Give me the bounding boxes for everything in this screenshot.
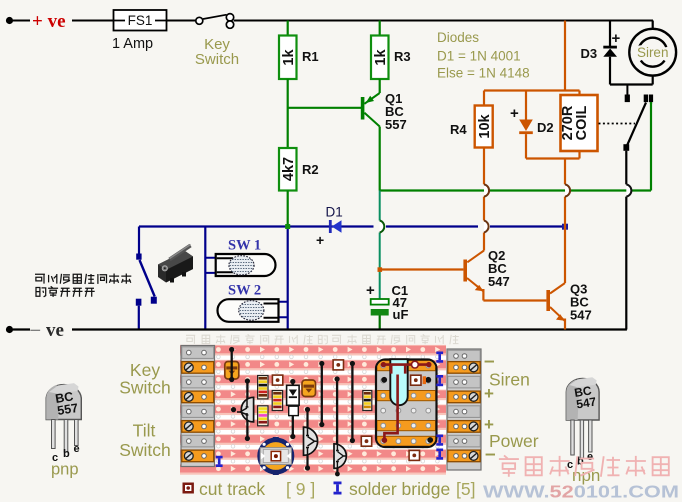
wire link link 3 [319,361,324,427]
transistor Q3 BC547 [546,283,565,330]
wire orange feed from +ve rail [564,21,566,91]
wire R3 top tap [379,21,381,36]
transistor T1 symbol [231,399,249,421]
svg-text:[5]: [5] [456,479,475,499]
wire Q2 emitter to Q3 base [483,299,546,301]
wire R4 to Q2 collector [483,148,485,251]
svg-text:Tilt: Tilt [133,421,156,441]
svg-text:pnp: pnp [51,461,79,479]
legend solder bridge text [349,479,475,499]
cut track mark [361,436,371,446]
transistor T2 on PCB (flat left) [304,407,318,471]
relay contact lever [623,103,646,151]
watermark chinese pink [499,455,669,476]
label siren terminals [484,351,530,403]
svg-text:1k: 1k [373,49,389,66]
label C1 47uF [392,283,409,322]
tilt switch SW1 [205,254,275,276]
svg-text:WWW.520101.COM: WWW.520101.COM [483,482,679,502]
transistor Q2 BC547 [380,251,484,301]
node D1 to Q3 collector junction dot [562,224,568,230]
diode D3 [603,21,617,85]
resistor on PCB RA [258,376,268,399]
label Q2 BC547 [488,248,510,289]
cut track mark inside relay [411,375,426,385]
label D1 [326,205,343,220]
svg-text:547: 547 [570,308,592,323]
legend solder bridge icon [334,482,342,495]
label D3 plus [612,30,621,47]
svg-text:D1: D1 [326,205,343,220]
svg-text:SW 2: SW 2 [228,283,261,299]
node R2/D1 junction dot [285,224,290,229]
wire +ve to FS1 [13,20,114,22]
buzzer/inductor blue ring [260,437,292,475]
resistor on PCB RB [258,406,268,426]
svg-text:ve: ve [46,320,64,341]
solder bridge mark [436,352,443,363]
relay coil 270R [560,95,598,151]
node Q2 base junction dot [378,267,383,272]
label -ve [30,319,64,341]
solder bridge mark [216,456,223,467]
node -ve terminal dot [6,326,13,333]
label R1 [302,49,319,64]
label 1 Amp [112,36,153,52]
key switch SW [196,14,234,29]
solder bridge mark [436,449,443,460]
watermark url [483,482,679,502]
wire siren bottom loop [610,21,653,85]
svg-text:1k: 1k [281,49,297,66]
relay wiring traces [383,365,428,440]
watermark faint row [186,334,459,344]
wire FS1 to key switch [167,20,196,22]
svg-text:Else = 1N 4148: Else = 1N 4148 [437,66,530,81]
wire relay common to -ve rail [625,151,627,330]
wire hop R4 wire over blue rail [484,221,489,233]
svg-text:solder bridge: solder bridge [349,479,450,499]
cut track mark [272,375,282,385]
svg-text:b: b [63,448,70,460]
label R3 [394,49,411,64]
legend cut track icon [183,483,194,494]
label R2 [302,162,319,177]
resistor R4 [475,91,493,148]
transistor T3 on PCB (flat left) [334,444,346,477]
microswitch clipart [158,245,193,283]
transistor package BC557 pnp [46,383,81,464]
label D2 [537,120,554,135]
svg-text:Switch: Switch [195,51,239,68]
diode on PCB [287,385,300,415]
label npn [572,466,600,485]
wire link link 5 [350,361,355,443]
svg-text:e: e [587,451,593,463]
wire top +ve rail [234,20,653,22]
siren [629,29,676,76]
svg-text:+: + [484,384,494,403]
wire Q1 base line [288,107,361,109]
resistor R2 [279,148,297,191]
svg-text:FS1: FS1 [128,13,153,28]
wire tilt box right vertical [287,229,289,330]
svg-text:557: 557 [385,117,407,132]
wire tilt box left vertical [138,227,140,254]
terminal strip right [447,349,481,470]
label tilt switch rows [119,421,171,461]
wire hop relay common over green rail [626,184,631,196]
wire hop green over blue [380,221,385,233]
diode D1 [329,220,342,233]
relay contact common stub [625,85,630,103]
tilt switch SW2 [218,299,288,322]
label R4 [450,122,467,137]
PCB stripboard [180,345,446,475]
label diodes note [437,30,530,81]
relay pins [381,377,433,443]
svg-text:R4: R4 [450,122,467,137]
wire R3 to Q1 emitter [379,79,381,93]
capacitor on PCB C-b [302,380,316,397]
label D3 [581,46,598,61]
svg-text:Switch: Switch [119,378,171,398]
cut track mark [333,360,343,370]
wire R1 top tap [287,21,289,36]
resistor on PCB RD [363,391,372,411]
svg-text:10k: 10k [477,113,493,138]
label SW1 [228,238,261,254]
svg-text:COIL: COIL [574,106,590,141]
resistor on PCB RC [272,391,282,411]
label key switch rows [119,360,171,398]
wire coil to Q3 collector [564,159,566,284]
transistor Q1 BC557 [361,93,380,127]
label D1 plus [316,232,324,248]
wire hop R4 wire over green rail [484,184,489,196]
transistor package BC547 npn [566,377,599,471]
svg-text:4k7: 4k7 [281,157,297,181]
solder bridge mark [436,375,443,386]
svg-text:D3: D3 [581,46,598,61]
relay reed capsule [390,359,407,405]
svg-text:R1: R1 [302,49,319,64]
label Key Switch [195,36,239,68]
label power terminals [484,415,539,465]
svg-text:R2: R2 [302,162,319,177]
solder bridge mark [436,435,443,446]
svg-text:D2: D2 [537,120,554,135]
svg-text:uF: uF [393,307,409,322]
switch manual NO contact [136,254,157,330]
svg-text:SW 1: SW 1 [228,238,261,254]
label Q1 BC557 [385,91,407,132]
resistor R3 [371,36,389,80]
svg-text:Diodes: Diodes [437,30,479,45]
svg-text:D1 = 1N 4001: D1 = 1N 4001 [437,49,521,64]
label pnp [51,461,79,479]
wire blue base rail [139,225,564,227]
wire Q1 collector down [379,127,381,191]
node +ve terminal dot [6,17,13,24]
wire relay NO contact to green rail [650,102,652,104]
wire link link 4 / T3 lead [335,376,340,452]
annotation chinese note [35,274,131,297]
diode D2 [519,91,533,159]
cut track mark [409,450,419,460]
relay mechanical link dotted [599,123,636,125]
terminal strip left [181,346,215,467]
wire link diode lead [290,379,295,439]
label +ve [32,11,66,32]
svg-text:–: – [485,444,496,465]
svg-text:547: 547 [488,274,510,289]
svg-text:[ 9 ]: [ 9 ] [286,479,315,499]
svg-text:+: + [316,232,324,248]
wire R2 to junction [287,191,289,225]
svg-text:Siren: Siren [489,370,530,390]
svg-text:–: – [30,319,41,340]
wire green rail to relay contact [380,102,651,191]
svg-text:e: e [74,443,80,455]
svg-text:R3: R3 [394,49,411,64]
label SW2 [228,283,261,299]
wire link link 1 [229,347,234,382]
svg-text:Switch: Switch [119,440,171,460]
capacitor on PCB C-a [225,362,239,380]
svg-text:Siren: Siren [637,45,669,60]
svg-text:+: + [510,105,519,122]
svg-text:+: + [612,30,621,47]
relay module on PCB [376,360,437,448]
wire orange top horizontal [484,91,580,96]
svg-text:1 Amp: 1 Amp [112,36,153,52]
wire link link 2 / T1 lead [245,378,250,441]
svg-text:+: + [366,282,375,299]
wire orange bottom of coil loop [526,151,580,159]
capacitor C1 [366,282,389,330]
transistor T1 on PCB (flat right) [241,397,253,422]
resistor R1 [279,36,297,80]
label D2 plus [510,105,519,122]
relay contact fixed terminals [644,95,653,103]
legend cut track text [199,479,315,499]
label Q3 BC547 [570,282,592,323]
svg-text:+ ve: + ve [32,11,66,32]
svg-text:Power: Power [489,431,539,451]
svg-text:cut track: cut track [199,479,265,499]
wire tilt box middle vertical [204,227,206,330]
wire hop coil wire over green rail [565,184,570,196]
wire Q1 collector to C1 node (teal) [379,191,381,299]
wire R1 to R2 [287,79,289,148]
fuse FS1 [114,10,167,31]
wire -ve bottom rail [13,328,627,330]
